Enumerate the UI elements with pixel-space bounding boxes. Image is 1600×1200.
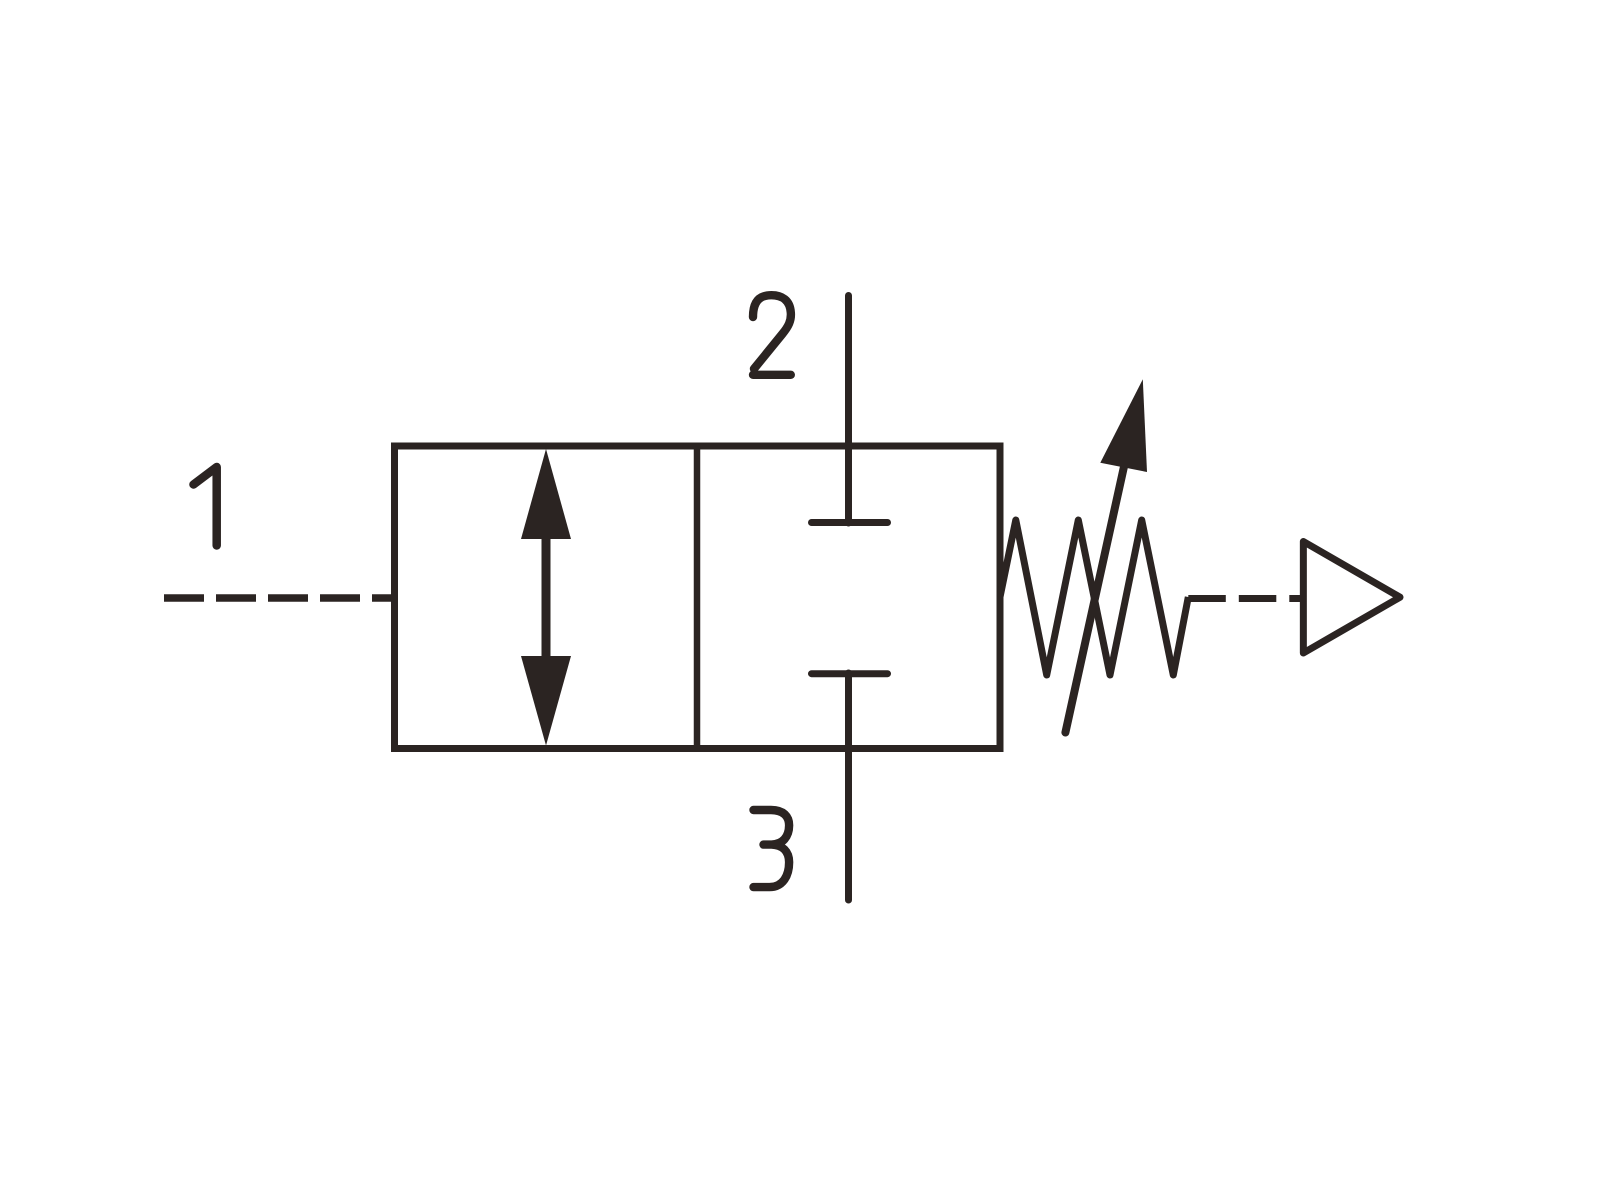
label 2 xyxy=(753,295,791,375)
flow arrow lower head xyxy=(521,656,571,746)
spring (adjustable) xyxy=(1000,520,1188,675)
adjustment arrow head xyxy=(1100,379,1147,472)
port 2 line xyxy=(845,296,852,524)
pilot dashed link xyxy=(1188,595,1303,602)
port 3 seat bar xyxy=(812,670,888,677)
flow arrow upper head xyxy=(521,449,571,539)
label 3 xyxy=(754,810,790,887)
chamber divider xyxy=(694,446,701,749)
valve body (two-chamber box) xyxy=(395,446,1001,749)
port 3 line xyxy=(845,673,852,900)
adjustment arrow shaft xyxy=(1065,462,1125,733)
pilot triangle xyxy=(1303,542,1400,654)
port 2 seat bar xyxy=(812,519,888,526)
label 1 xyxy=(194,467,217,546)
flow arrow shaft xyxy=(542,534,551,661)
port 1 dashed pilot line xyxy=(164,594,395,602)
